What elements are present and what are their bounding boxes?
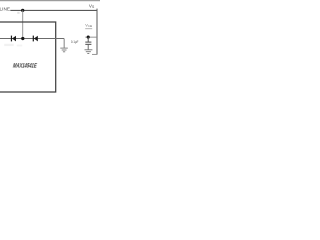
svg-text:VCC: VCC xyxy=(85,23,92,28)
background xyxy=(0,0,100,100)
wire: right vertical drop xyxy=(96,9,98,55)
wire: short foot at bottom of right drop xyxy=(92,53,97,55)
junction dot on diode row xyxy=(21,37,24,40)
svg-text:0.1µF: 0.1µF xyxy=(71,40,79,44)
svg-text:LINE: LINE xyxy=(0,7,10,12)
dash after VCC label xyxy=(90,25,92,27)
wire: cap top lead xyxy=(87,37,89,42)
svg-text:MAX14541E: MAX14541E xyxy=(13,63,38,70)
wire: cap bottom lead xyxy=(87,44,89,49)
IC box U1 (clipped at left edge) xyxy=(0,22,56,92)
wire: vertical from rail to diode row xyxy=(22,10,24,38)
faint ghost marks inside box xyxy=(4,44,14,46)
diode D2 (pointing left) xyxy=(33,36,38,42)
IC label MAX14541E xyxy=(13,63,38,70)
faint small mark right of vertical wire xyxy=(17,12,19,14)
capacitor C1 plates xyxy=(85,42,91,44)
wire: top rail xyxy=(10,9,97,11)
top clipped gray edge band xyxy=(0,0,100,1)
junction dot on top rail xyxy=(21,9,24,12)
diode D1 (pointing left) xyxy=(11,36,16,42)
faint second label row xyxy=(85,28,92,29)
junction dot on VCC stub xyxy=(87,36,90,39)
svg-text:VS: VS xyxy=(89,3,95,9)
wire: pin stem down to ground xyxy=(63,39,65,49)
ground symbol (diode pin) xyxy=(60,48,68,52)
wire: diode row horizontal xyxy=(0,38,64,40)
ground symbol (capacitor) xyxy=(85,50,93,54)
wire: VCC stub horizontal xyxy=(85,36,97,38)
